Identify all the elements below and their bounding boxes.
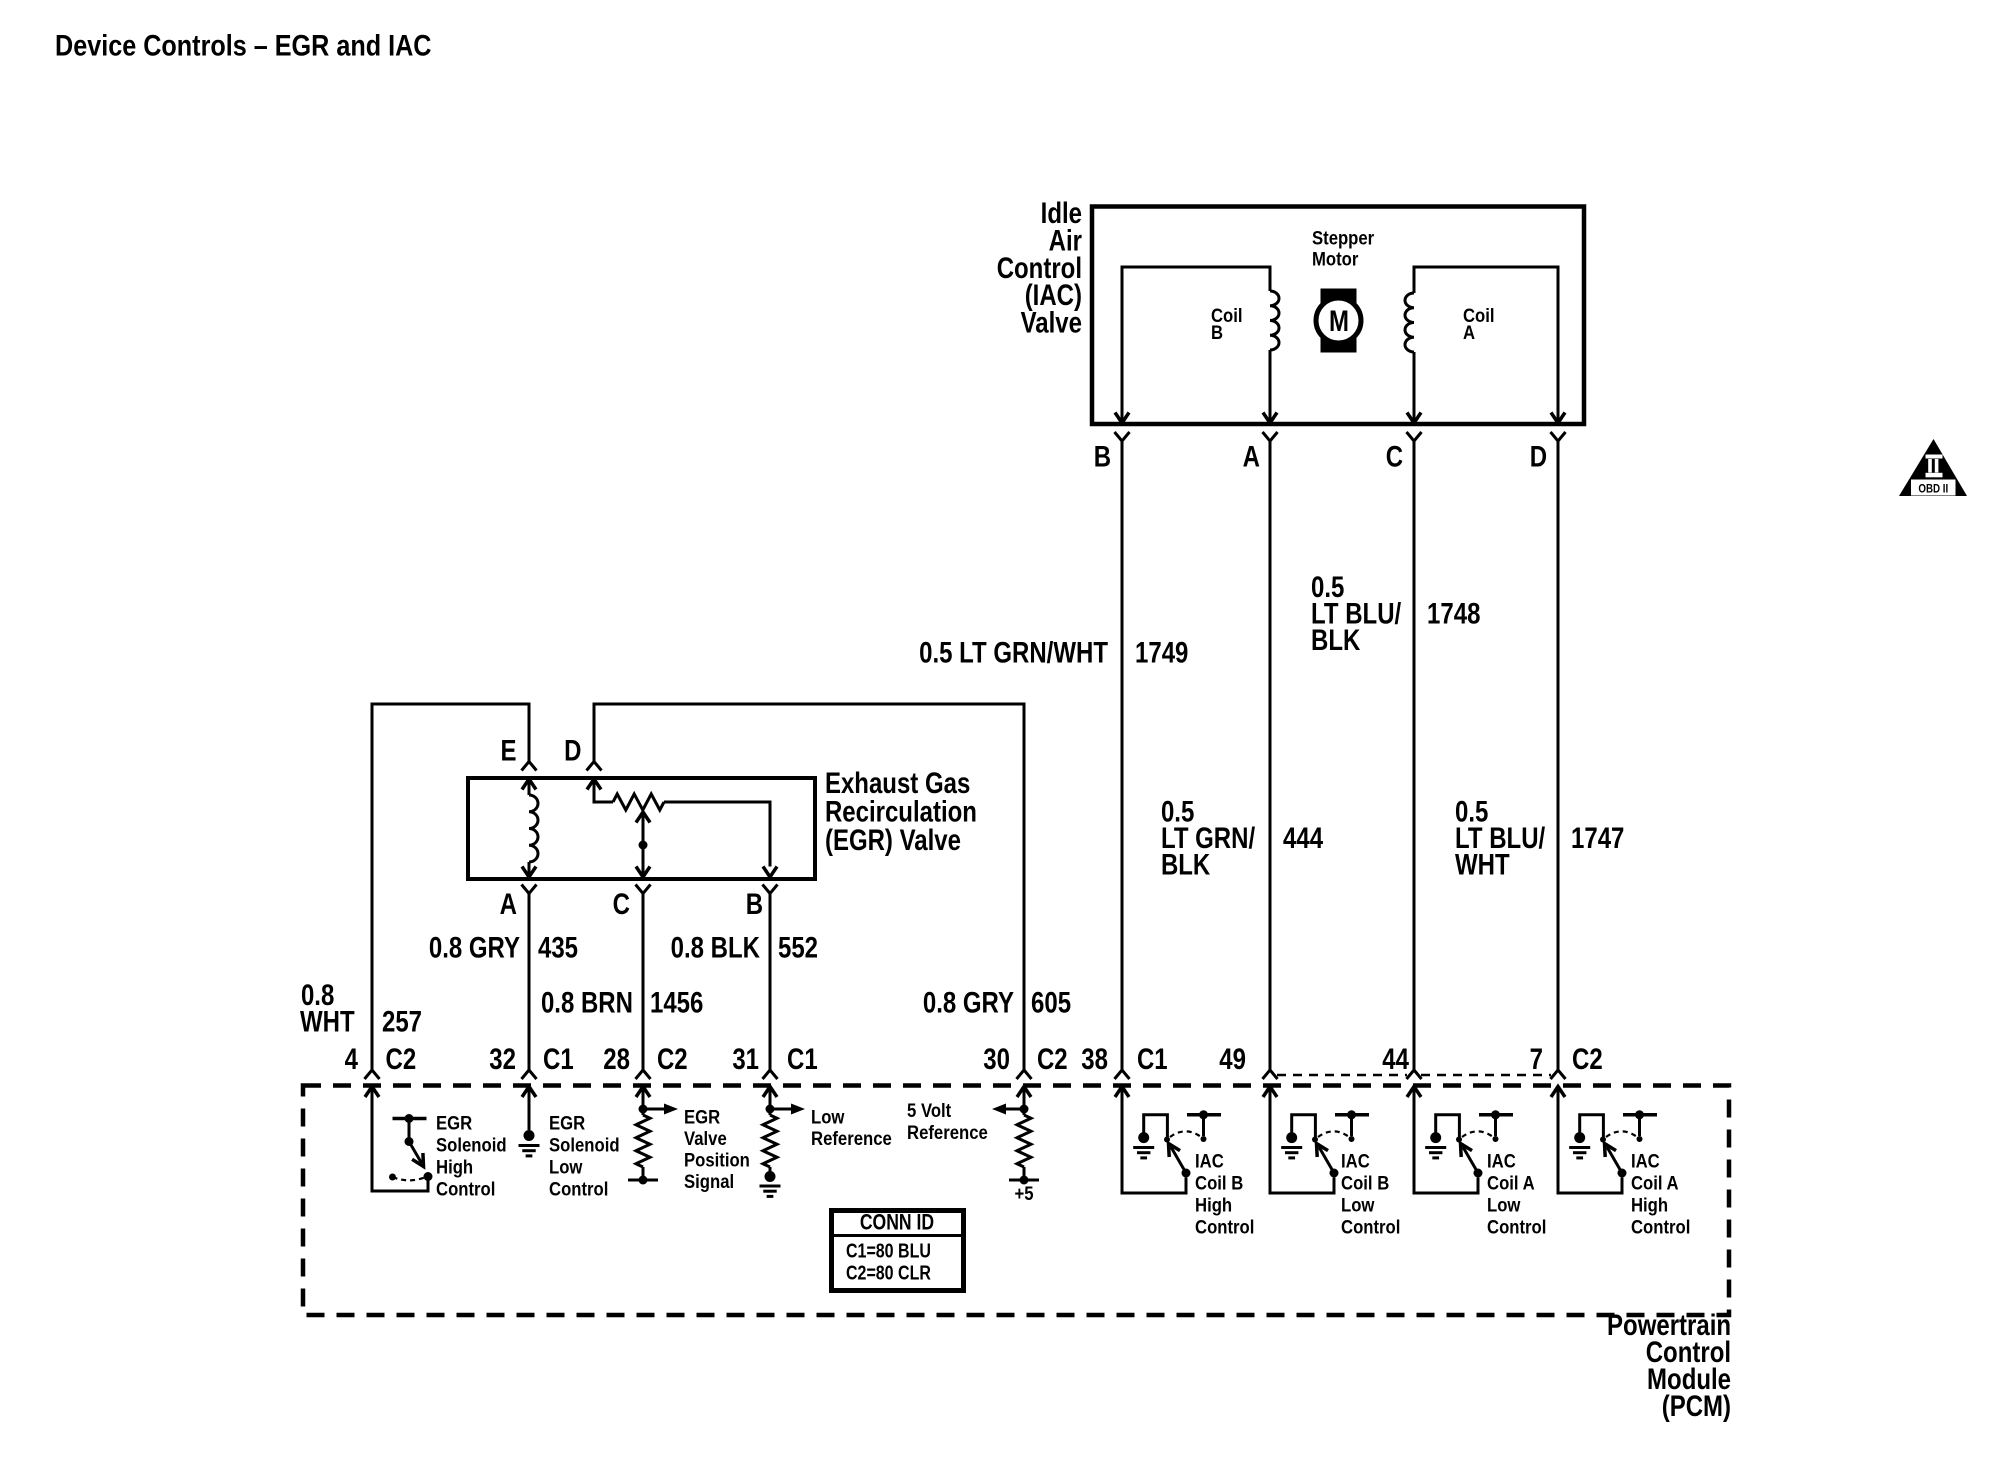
label 0.5 LT GRN/WHT 1749 [919, 635, 1188, 669]
arrow down inside IAC box at x=1558 [1551, 413, 1565, 424]
svg-text:E: E [500, 733, 516, 767]
svg-text:CONN ID: CONN ID [860, 1211, 934, 1235]
svg-text:Low: Low [811, 1107, 844, 1128]
svg-text:Coil A: Coil A [1631, 1173, 1679, 1194]
PCM pin 38 connector [1081, 1041, 1167, 1097]
EGR valve position signal (pin 28) [628, 1087, 678, 1185]
EGR valve label [825, 765, 977, 856]
PCM pin 4 connector [345, 1041, 417, 1097]
PCM pin 30 connector [983, 1041, 1067, 1097]
svg-text:Motor: Motor [1312, 249, 1358, 270]
svg-text:5 Volt: 5 Volt [907, 1100, 951, 1121]
svg-text:C2: C2 [657, 1041, 688, 1075]
EGR pot wire to B [664, 802, 770, 867]
PCM pin 49 connector [1219, 1041, 1277, 1097]
EGR pot arrow down at B [763, 867, 777, 878]
svg-text:44: 44 [1382, 1041, 1409, 1075]
svg-text:Coil A: Coil A [1487, 1173, 1535, 1194]
svg-text:605: 605 [1031, 985, 1071, 1019]
svg-text:EGR: EGR [436, 1113, 472, 1134]
svg-text:(PCM): (PCM) [1662, 1388, 1731, 1422]
svg-text:7: 7 [1530, 1041, 1543, 1075]
IAC valve pin A connector [1243, 432, 1278, 473]
label 0.8 GRY 605 [923, 985, 1071, 1019]
svg-text:B: B [1211, 322, 1223, 343]
PCM pin 31 connector [732, 1041, 817, 1097]
label 0.8 WHT 257 [300, 977, 422, 1038]
EGR solenoid high control label [436, 1113, 507, 1200]
wire pin30 run (D to PCM 30) [594, 704, 1024, 1070]
PCM pin 7 connector [1530, 1041, 1603, 1097]
wire coil A to box bottom [1413, 352, 1416, 423]
label 0.5 LT BLU/BLK 1748 [1311, 569, 1480, 656]
coil B label [1211, 305, 1243, 343]
wire coil B to box bottom [1269, 350, 1272, 423]
svg-text:M: M [1329, 303, 1349, 337]
svg-text:IAC: IAC [1631, 1151, 1660, 1172]
svg-text:1747: 1747 [1571, 820, 1624, 854]
svg-text:IAC: IAC [1195, 1151, 1224, 1172]
EGR valve position signal label [684, 1107, 750, 1193]
PCM pin 32 connector [489, 1041, 573, 1097]
IAC valve label [997, 195, 1083, 339]
connector dashes between pins 49-44 [1277, 1074, 1407, 1077]
arrow down inside IAC box at x=1270 [1263, 413, 1277, 424]
IAC driver Coil B High control (pin at x=1122) [1122, 1087, 1254, 1238]
svg-text:Control: Control [1631, 1217, 1690, 1238]
svg-text:Reference: Reference [907, 1122, 988, 1143]
PCM dashed box [303, 1086, 1729, 1316]
svg-text:Control: Control [549, 1179, 608, 1200]
svg-text:IAC: IAC [1341, 1151, 1370, 1172]
svg-text:0.8 GRY: 0.8 GRY [923, 985, 1014, 1019]
svg-text:435: 435 [538, 930, 578, 964]
svg-text:C2=80 CLR: C2=80 CLR [846, 1262, 931, 1284]
label 0.8 BRN 1456 [541, 985, 703, 1019]
EGR wiper arrow down [636, 867, 650, 878]
IAC coil A loop wire [1414, 267, 1558, 423]
svg-text:C1: C1 [1137, 1041, 1168, 1075]
low reference (pin 31) [760, 1087, 806, 1197]
arrow down inside IAC box at x=1414 [1407, 413, 1421, 424]
svg-text:444: 444 [1283, 820, 1323, 854]
IAC driver Coil A High control (pin at x=1558) [1558, 1087, 1690, 1238]
svg-text:Coil B: Coil B [1341, 1173, 1389, 1194]
svg-text:Solenoid: Solenoid [436, 1135, 507, 1156]
EGR pin D connector [564, 733, 601, 771]
svg-text:C1: C1 [787, 1041, 818, 1075]
label 0.5 LT GRN/BLK 444 [1161, 794, 1323, 881]
5 volt reference (pin 30) [992, 1087, 1039, 1205]
IAC coil B loop wire [1122, 267, 1270, 423]
EGR solenoid coil bottom wire + arrow [522, 862, 536, 877]
wire 435 (A to PCM 32) [528, 894, 531, 1071]
svg-text:552: 552 [778, 930, 818, 964]
wire D (1747) [1557, 441, 1560, 1070]
svg-text:EGR: EGR [549, 1113, 585, 1134]
svg-text:0.8 BRN: 0.8 BRN [541, 985, 633, 1019]
svg-text:38: 38 [1081, 1041, 1108, 1075]
svg-text:(EGR) Valve: (EGR) Valve [825, 822, 961, 856]
EGR valve pin C connector [613, 885, 651, 921]
connector dashes between pins 44-7 [1421, 1074, 1551, 1077]
svg-text:Signal: Signal [684, 1171, 734, 1192]
stepper motor M1 [1316, 289, 1361, 353]
svg-text:Control: Control [1195, 1217, 1254, 1238]
IAC valve pin B connector [1094, 432, 1130, 473]
svg-text:Solenoid: Solenoid [549, 1135, 620, 1156]
label 0.5 LT BLU/WHT 1747 [1455, 794, 1624, 881]
svg-text:Coil B: Coil B [1195, 1173, 1243, 1194]
EGR wiper junction dot [639, 841, 648, 850]
svg-text:49: 49 [1219, 1041, 1246, 1075]
svg-text:C: C [613, 886, 630, 920]
EGR wiper arrow [636, 812, 650, 877]
wire A (444) [1269, 441, 1272, 1070]
svg-text:B: B [1094, 439, 1111, 473]
low reference label [811, 1107, 892, 1150]
svg-text:Reference: Reference [811, 1128, 892, 1149]
svg-text:IAC: IAC [1487, 1151, 1516, 1172]
wire C (1748) [1413, 441, 1416, 1070]
wire D drop [593, 703, 596, 762]
PCM pin 28 connector [603, 1041, 687, 1097]
svg-text:28: 28 [603, 1041, 630, 1075]
svg-text:Control: Control [1487, 1217, 1546, 1238]
svg-text:C2: C2 [386, 1041, 417, 1075]
IAC driver Coil A Low control (pin at x=1414) [1414, 1087, 1546, 1238]
svg-text:257: 257 [382, 1004, 422, 1038]
svg-text:OBD II: OBD II [1918, 483, 1948, 496]
svg-text:Device Controls – EGR and IAC: Device Controls – EGR and IAC [55, 28, 431, 62]
wire 1456 (C to PCM 28) [642, 894, 645, 1071]
svg-text:High: High [1195, 1195, 1232, 1216]
svg-text:High: High [1631, 1195, 1668, 1216]
IAC driver Coil B Low control (pin at x=1270) [1270, 1087, 1400, 1238]
svg-text:Low: Low [1487, 1195, 1520, 1216]
svg-text:0.8 GRY: 0.8 GRY [429, 930, 520, 964]
svg-text:BLK: BLK [1311, 622, 1361, 656]
svg-text:Position: Position [684, 1150, 750, 1171]
svg-text:C1=80 BLU: C1=80 BLU [846, 1240, 931, 1262]
svg-text:Control: Control [1341, 1217, 1400, 1238]
label 0.8 GRY 435 [429, 930, 578, 964]
PCM label [1607, 1307, 1731, 1422]
wire pin4 run (E to PCM 4) [372, 704, 529, 1070]
svg-text:WHT: WHT [300, 1004, 355, 1038]
svg-text:+5: +5 [1014, 1183, 1033, 1204]
EGR potentiometer resistor [613, 794, 664, 810]
svg-text:1749: 1749 [1135, 635, 1188, 669]
svg-text:D: D [1530, 439, 1547, 473]
svg-text:Valve: Valve [684, 1128, 727, 1149]
svg-text:1748: 1748 [1427, 596, 1480, 630]
svg-text:C2: C2 [1572, 1041, 1603, 1075]
svg-text:C1: C1 [543, 1041, 574, 1075]
svg-text:A: A [500, 886, 517, 920]
svg-text:1456: 1456 [650, 985, 703, 1019]
OBD II symbol [1899, 439, 1967, 496]
svg-text:Low: Low [549, 1157, 582, 1178]
EGR valve box [468, 778, 815, 879]
EGR solenoid coil [529, 795, 538, 862]
svg-text:4: 4 [345, 1041, 358, 1075]
svg-text:Low: Low [1341, 1195, 1374, 1216]
arrow down inside IAC box at x=1122 [1115, 413, 1129, 424]
CONN ID table [829, 1211, 964, 1291]
EGR pot wire D arrow up [587, 779, 613, 802]
wire B (1749) [1121, 441, 1124, 1070]
title text [55, 28, 431, 62]
svg-text:Valve: Valve [1021, 305, 1082, 339]
svg-text:High: High [436, 1157, 473, 1178]
svg-text:A: A [1463, 322, 1475, 343]
IAC valve pin C connector [1386, 432, 1422, 473]
svg-text:0.8 BLK: 0.8 BLK [671, 930, 761, 964]
svg-text:C2: C2 [1037, 1041, 1068, 1075]
EGR solenoid low control (pin 32) [519, 1087, 540, 1156]
PCM pin 44 connector [1382, 1041, 1421, 1097]
svg-text:B: B [746, 886, 763, 920]
IAC valve pin D connector [1530, 432, 1566, 473]
EGR solenoid high control driver (pin 4) [372, 1087, 433, 1192]
EGR valve pin A connector [500, 885, 537, 921]
coil B inductor [1270, 291, 1279, 350]
svg-text:C: C [1386, 439, 1403, 473]
IAC valve box [1092, 207, 1584, 425]
svg-text:A: A [1243, 439, 1260, 473]
svg-text:32: 32 [489, 1041, 516, 1075]
svg-text:Stepper: Stepper [1312, 228, 1374, 249]
5 volt reference label [907, 1100, 988, 1143]
coil A inductor [1405, 293, 1414, 352]
svg-text:D: D [564, 733, 581, 767]
svg-text:BLK: BLK [1161, 847, 1211, 881]
wire E drop [528, 703, 531, 762]
EGR pin E connector [500, 733, 536, 771]
svg-text:WHT: WHT [1455, 847, 1510, 881]
svg-text:0.5 LT GRN/WHT: 0.5 LT GRN/WHT [919, 635, 1108, 669]
EGR solenoid low control label [549, 1113, 620, 1200]
EGR solenoid coil wire arrow up [522, 779, 536, 795]
label 0.8 BLK 552 [671, 930, 818, 964]
svg-text:31: 31 [732, 1041, 759, 1075]
svg-text:EGR: EGR [684, 1107, 720, 1128]
wire 552 (B to PCM 31) [769, 894, 772, 1071]
stepper motor label [1312, 228, 1374, 270]
svg-text:30: 30 [983, 1041, 1010, 1075]
EGR valve pin B connector [746, 885, 778, 921]
coil A label [1463, 305, 1495, 343]
svg-text:Control: Control [436, 1179, 495, 1200]
